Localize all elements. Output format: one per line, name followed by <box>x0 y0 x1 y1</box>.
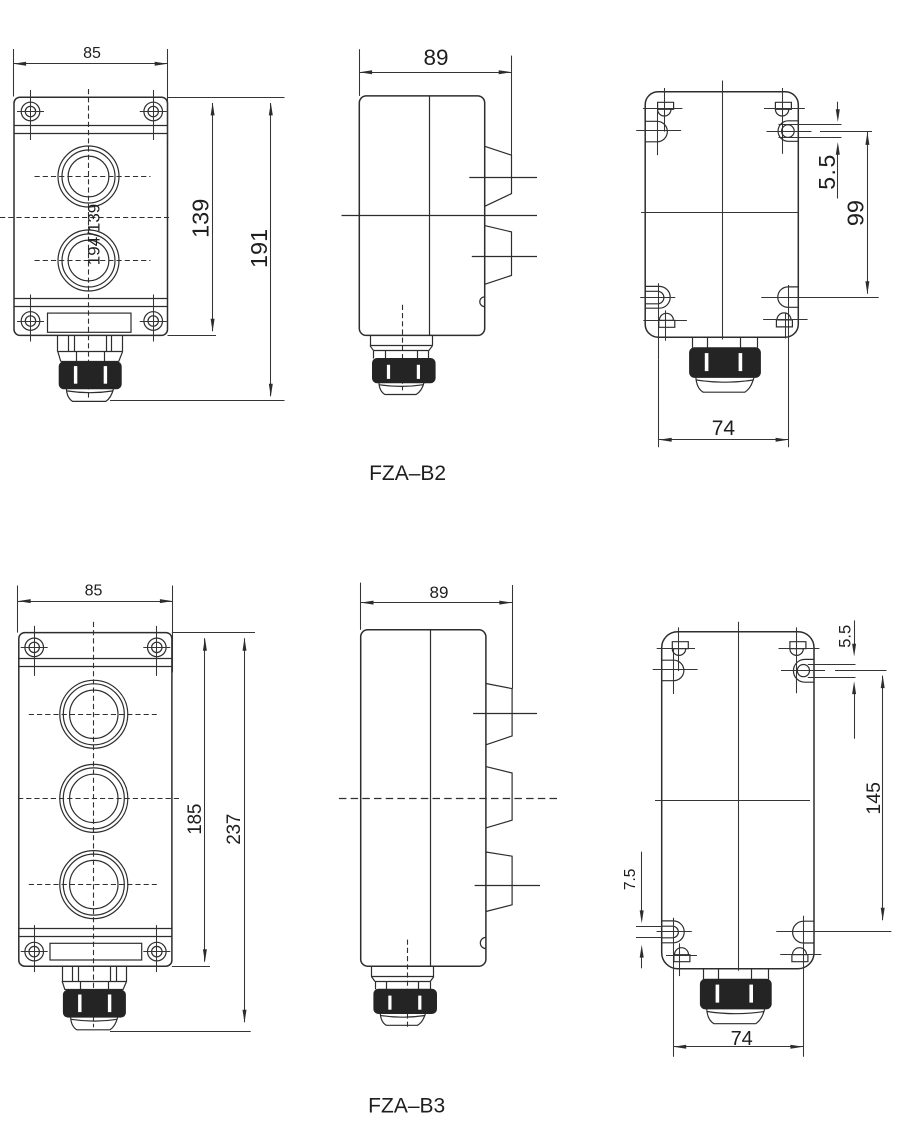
dimension 139 line <box>212 103 214 331</box>
FZA-B3 front cable gland slot left <box>78 995 81 1013</box>
FZA-B2 front label plate <box>48 313 132 332</box>
FZA-B3 side gland dome chord <box>381 1016 426 1018</box>
FZA-B2 back gland dome chord <box>696 380 753 382</box>
dimension 145 line <box>882 676 884 921</box>
FZA-B3 side view screw notch <box>480 937 486 948</box>
FZA-B2 back bottom-right boss cross line <box>761 297 878 299</box>
FZA-B2 back hole center extension line <box>767 131 812 133</box>
svg-text:145: 145 <box>863 782 885 815</box>
FZA-B3 back gland slot right <box>749 985 753 1003</box>
FZA-B3 side gland body (black) <box>374 989 437 1013</box>
dimension 89 (FZA-B2) line <box>359 72 511 74</box>
svg-text:89: 89 <box>430 583 449 602</box>
FZA-B3 front bottom-right mounting hole <box>148 942 167 961</box>
FZA-B3 back view body outline <box>662 632 814 969</box>
FZA-B2 back bottom-left tab cross lines <box>643 320 687 322</box>
svg-text:FZA–B2: FZA–B2 <box>369 462 446 485</box>
FZA-B3 top edge extension line <box>172 632 255 634</box>
FZA-B3 back bottom-right vertical extension line (74) <box>803 916 805 1057</box>
FZA-B3 side gland slot right <box>418 996 421 1010</box>
svg-text:139: 139 <box>188 199 214 238</box>
FZA-B2 back top-left boss <box>645 121 667 142</box>
FZA-B3 back gland neck <box>703 969 705 980</box>
FZA-B3 side button 1 center line <box>473 713 537 715</box>
svg-text:85: 85 <box>83 45 101 62</box>
FZA-B2 back vertical center line <box>722 81 724 340</box>
FZA-B2 front bottom-right mounting hole <box>144 312 163 331</box>
FZA-B3 back bottom-left tab cross lines <box>666 955 697 957</box>
FZA-B2 back top-right screw tab <box>775 102 791 109</box>
dimension 5.5 (FZA-B2) lower arrow and stem <box>837 154 839 199</box>
FZA-B2 side gland body (black) <box>373 359 436 383</box>
dimension 99 line <box>867 131 869 294</box>
FZA-B3 front view lid parting lines <box>19 658 172 660</box>
FZA-B3 front pushbutton 3 center line <box>29 884 157 886</box>
FZA-B2 back view body outline <box>645 92 798 338</box>
dimension 89 (FZA-B3) extension lines <box>360 583 362 630</box>
FZA-B3 front pushbutton 1 rings <box>60 680 128 748</box>
dimension 5.5 (FZA-B3) tangent extension lines <box>808 664 856 666</box>
FZA-B2 back bottom-left ear (slotted) <box>645 286 670 308</box>
dimension 85 (FZA-B3) line <box>18 601 173 603</box>
svg-text:74: 74 <box>712 417 736 440</box>
FZA-B2 side view button bump 1 <box>485 146 512 206</box>
FZA-B3 back top-right mounting ear <box>793 659 814 682</box>
FZA-B3 bottom edge extension line <box>172 966 210 968</box>
dimension 7.5 lower arrow and stem <box>641 955 643 968</box>
FZA-B3 back bottom-right boss <box>793 921 814 943</box>
FZA-B3 back gland dome <box>707 1009 765 1024</box>
FZA-B2 front view lid parting lines <box>14 125 168 127</box>
FZA-B2 back gland neck <box>692 337 694 348</box>
FZA-B3 front cable gland body (black) <box>63 990 125 1017</box>
FZA-B3 front top-right mounting hole <box>148 638 167 657</box>
FZA-B2 side button 1 center line <box>469 177 537 179</box>
svg-text:7.5: 7.5 <box>622 869 639 891</box>
svg-text:99: 99 <box>842 200 868 226</box>
FZA-B3 gland bottom extension line <box>110 1031 251 1033</box>
FZA-B2 front cable gland body (black) <box>59 362 121 389</box>
FZA-B2 side gland neck <box>370 335 372 345</box>
FZA-B3 back top-right tab cross lines <box>796 627 798 693</box>
FZA-B2 back horizontal center line <box>641 212 798 214</box>
FZA-B3 back gland body (black) <box>700 979 771 1009</box>
FZA-B2 front horizontal center line <box>0 217 169 219</box>
svg-text:237: 237 <box>224 814 245 845</box>
dimension 7.5 tangent extension lines <box>636 926 662 928</box>
FZA-B3 front bottom-left mounting hole <box>25 942 44 961</box>
FZA-B3 back bottom-left ear (slotted) <box>662 921 685 943</box>
dimension 74 (FZA-B3) line <box>673 1046 803 1048</box>
FZA-B3 side view body outline <box>361 630 486 966</box>
svg-text:185: 185 <box>185 804 206 835</box>
FZA-B3 front top-left mounting hole <box>25 638 44 657</box>
FZA-B2 front cable gland neck <box>57 335 59 351</box>
FZA-B3 back bottom-left ear cross line <box>657 931 692 933</box>
FZA-B2 top edge extension line <box>168 97 285 99</box>
svg-text:191: 191 <box>246 229 272 268</box>
FZA-B3 back top-left screw tab <box>672 642 688 649</box>
FZA-B3 back bottom-left screw tab <box>674 955 690 962</box>
FZA-B3 back bottom-right tab cross lines <box>780 954 821 956</box>
FZA-B2 back gland dome <box>696 377 754 392</box>
FZA-B2 side view button bump 2 <box>485 226 512 285</box>
FZA-B2 front cable gland dome <box>66 389 113 402</box>
dimension 5.5 (FZA-B3) upper arrow and stem <box>854 620 856 646</box>
FZA-B2 back bottom-right boss <box>778 287 798 307</box>
FZA-B2 front vertical center line <box>88 89 90 399</box>
FZA-B2 back bottom-left screw tab <box>659 320 675 327</box>
FZA-B2 back bottom-right tab cross lines <box>763 319 808 321</box>
FZA-B2 front cable gland slot left <box>74 366 77 384</box>
FZA-B3 front pushbutton 1 center line <box>29 714 157 716</box>
FZA-B2 side view gland center line <box>402 305 404 391</box>
dimension 85 (FZA-B3) extension lines <box>17 586 19 633</box>
FZA-B2 front view body outline <box>14 97 168 335</box>
FZA-B3 side view lid parting line <box>430 630 432 966</box>
FZA-B3 front vertical center line <box>93 622 95 1027</box>
FZA-B2 back mounting hole (5.5) <box>782 125 795 138</box>
FZA-B2 front bottom-left mounting hole <box>21 312 40 331</box>
FZA-B2 front cable gland dome chord <box>67 391 114 393</box>
svg-text:FZA–B3: FZA–B3 <box>368 1095 445 1118</box>
svg-text:74: 74 <box>731 1028 753 1050</box>
FZA-B3 back bottom-right screw tab <box>792 955 808 962</box>
FZA-B3 side view horizontal center line (dashed) <box>339 798 558 800</box>
FZA-B3 front cable gland slot right <box>108 995 111 1013</box>
FZA-B3 side button 3 center line <box>475 885 540 887</box>
FZA-B2 bottom edge extension line <box>168 335 217 337</box>
FZA-B3 front cable gland dome <box>71 1017 118 1030</box>
FZA-B3 side view button bump 2 <box>486 767 512 828</box>
FZA-B2 front pushbutton 1 center line <box>35 176 151 178</box>
FZA-B2 side view horizontal center line <box>342 215 538 217</box>
FZA-B2 back top-right tab cross lines <box>782 88 784 154</box>
dimension 89 (FZA-B2) extension lines <box>359 49 361 96</box>
FZA-B2 front top-right mounting hole <box>144 102 163 121</box>
FZA-B3 back gland slot left <box>716 985 720 1003</box>
FZA-B2 front pushbutton 1 rings <box>58 146 119 207</box>
FZA-B3 back top-left tab cross lines <box>678 627 680 671</box>
FZA-B3 back gland dome chord <box>707 1012 764 1014</box>
FZA-B3 back top-left boss cross lines <box>673 648 675 694</box>
FZA-B3 front view body outline <box>19 633 172 967</box>
FZA-B3 back vertical center line <box>738 622 740 971</box>
FZA-B3 back horizontal center line <box>655 800 810 802</box>
dimension 5.5 (FZA-B2) tangent extension lines <box>779 124 842 126</box>
FZA-B2 back gland body (black) <box>690 348 761 378</box>
FZA-B2 back bottom-left vertical extension line (74) <box>658 360 660 447</box>
FZA-B3 side gland dome <box>380 1014 425 1026</box>
FZA-B3 back mounting hole (5.5) <box>797 665 809 677</box>
dimension 74 (FZA-B2) line <box>659 439 789 441</box>
FZA-B2 side view body outline <box>359 96 484 336</box>
FZA-B3 front cable gland dome chord <box>71 1019 118 1021</box>
FZA-B2 back top-left boss cross lines <box>657 109 659 155</box>
FZA-B3 side gland slot left <box>388 996 391 1010</box>
FZA-B3 back hole center extension line <box>781 670 825 672</box>
FZA-B3 side gland neck <box>371 966 373 976</box>
dimension 185 line <box>204 638 206 962</box>
dimension 5.5 (FZA-B3) lower arrow and stem <box>854 692 856 739</box>
FZA-B2 front top-left mounting hole <box>21 102 40 121</box>
FZA-B3 front cable gland neck <box>62 966 64 981</box>
FZA-B3 side view button bump 3 <box>486 852 512 912</box>
dimension 7.5 upper arrow and stem <box>641 852 643 913</box>
FZA-B2 side view screw notch <box>480 297 485 307</box>
FZA-B2 side gland dome <box>379 383 424 395</box>
svg-text:85: 85 <box>85 582 103 599</box>
FZA-B2 back top-left tab cross lines <box>664 88 666 132</box>
FZA-B2 back gland slot right <box>739 353 743 371</box>
FZA-B3 side view button bump 1 <box>486 684 512 745</box>
FZA-B3 side view gland center line <box>407 940 409 1028</box>
dimension 85 (FZA-B2) line <box>13 63 167 65</box>
FZA-B3 back top-left boss <box>662 660 684 681</box>
FZA-B2 side view lid parting line <box>429 96 431 336</box>
FZA-B2 side button 2 center line <box>472 256 537 258</box>
FZA-B2 back bottom-right vertical extension line (74) <box>788 285 790 447</box>
FZA-B2 back top-right mounting ear <box>778 121 798 142</box>
FZA-B2 side gland slot left <box>387 365 390 379</box>
FZA-B2 back gland slot left <box>705 353 709 371</box>
svg-text:5.5: 5.5 <box>814 153 840 189</box>
FZA-B3 front label plate <box>50 943 142 960</box>
dimension 237 line <box>244 638 246 1022</box>
FZA-B3 front pushbutton 2 rings <box>60 764 128 832</box>
FZA-B3 back top-right screw tab <box>790 642 806 649</box>
FZA-B2 back bottom-right screw tab <box>776 320 792 327</box>
FZA-B2 front cable gland slot right <box>104 366 107 384</box>
FZA-B2 side gland slot right <box>417 365 420 379</box>
FZA-B2 side gland dome chord <box>379 385 424 387</box>
FZA-B3 back bottom-right boss cross line <box>776 931 891 933</box>
FZA-B3 front horizontal center line <box>18 798 180 800</box>
svg-text:194/139: 194/139 <box>85 204 104 265</box>
FZA-B2 front pushbutton 2 center line <box>35 260 151 262</box>
svg-text:89: 89 <box>423 45 448 70</box>
FZA-B2 gland bottom extension line <box>110 400 285 402</box>
svg-text:5.5: 5.5 <box>837 625 855 648</box>
FZA-B2 front pushbutton 2 rings <box>58 230 119 291</box>
dimension 191 line <box>270 103 272 396</box>
dimension 85 (FZA-B2) extension lines <box>13 49 15 97</box>
FZA-B2 back bottom-left ear cross lines <box>640 297 675 299</box>
FZA-B2 back top-left screw tab <box>658 102 674 109</box>
dimension 89 (FZA-B3) line <box>361 602 512 604</box>
FZA-B3 back bottom-left vertical extension line (74) <box>673 918 675 1057</box>
FZA-B3 front pushbutton 3 rings <box>60 851 128 919</box>
dimension 5.5 (FZA-B2) upper arrow <box>837 102 839 111</box>
